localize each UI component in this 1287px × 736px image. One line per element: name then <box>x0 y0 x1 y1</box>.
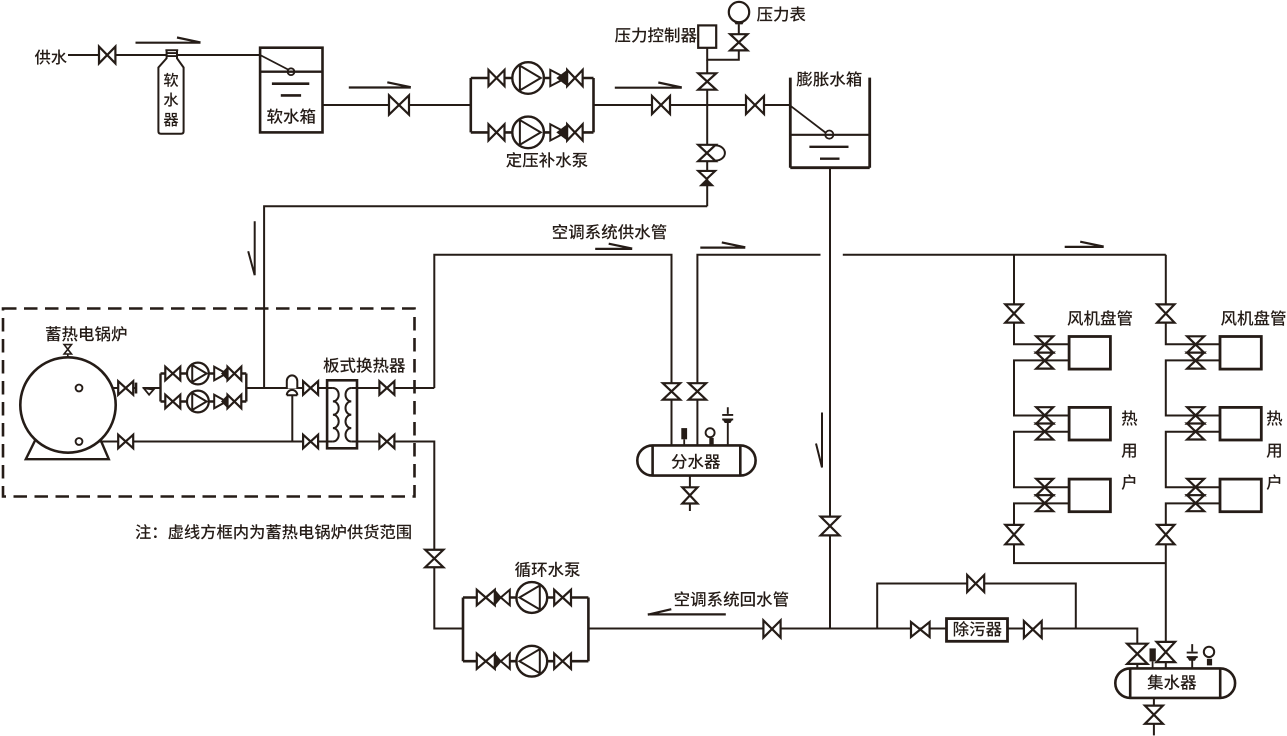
circulation pump branch 2 valve <box>477 654 495 669</box>
label 风机盘管 column 1 <box>1068 310 1133 326</box>
valve on HX hot outlet <box>303 435 318 449</box>
note text 注：虚线方框内为蓄热电锅炉供货范围 <box>136 524 411 539</box>
boiler dashed enclosure box <box>3 309 415 497</box>
valve on HX secondary return <box>379 435 394 449</box>
boiler pump 2 check valve <box>214 395 226 409</box>
wire makeup pump outlet line to expansion tank <box>594 104 791 106</box>
thermometer on collector <box>1150 648 1156 661</box>
valve on fan coil column 2 riser <box>1157 304 1174 322</box>
circulation pump branch 1 valve <box>477 590 495 605</box>
wire plate HX supply riser and AC supply header segment 1 <box>434 255 671 446</box>
flow arrow before pressure junction <box>615 83 682 88</box>
wire circulation pump group rails and branches <box>463 598 588 662</box>
pressure gauge on collector <box>1204 647 1214 657</box>
boiler pump 1 check valve <box>214 367 226 381</box>
fan coil unit 2-2 box <box>1220 407 1261 440</box>
valve on boiler lower return near boiler <box>118 435 133 449</box>
label 供水 city water supply <box>35 50 67 65</box>
wire HX secondary return to circulation pump <box>357 442 463 629</box>
boiler pump branch 1 valve <box>165 367 180 381</box>
flow arrow on supply header 2 <box>700 242 745 247</box>
air vent on collector <box>1187 644 1198 668</box>
air vent on distributor <box>722 407 733 445</box>
boiler pump 1 <box>187 363 209 385</box>
thermal storage electric boiler 蓄热电锅炉 <box>26 440 109 459</box>
makeup pump 1 <box>512 62 544 94</box>
fan coil unit 2-1 box <box>1220 337 1261 370</box>
label 空调系统供水管 <box>553 224 666 239</box>
wire boiler pump group rails and branches <box>161 374 247 402</box>
valve on return line after pumps <box>763 620 780 637</box>
flow arrow on supply header far right <box>1065 242 1104 247</box>
valve on dirt separator bypass <box>967 575 984 592</box>
wire relief device stem between boiler lines <box>291 395 293 441</box>
valve below fan coil column 1 <box>1005 525 1022 544</box>
makeup pump 2 <box>512 117 544 149</box>
Y strainer on boiler outlet <box>144 388 154 394</box>
fan coil unit 2-3 double valve <box>1187 479 1204 495</box>
circulation pump 2 check valve <box>501 654 510 669</box>
thermometer on distributor <box>681 428 687 439</box>
pressure controller 压力控制器 box <box>698 25 716 47</box>
fan coil unit 1-3 box <box>1069 479 1110 512</box>
valve after soft water tank <box>389 95 409 114</box>
valve on expansion pipe <box>821 517 840 536</box>
label 循环水泵 <box>515 562 580 578</box>
wire fan coil 1 return to fan coil 2 supply <box>1014 360 1069 415</box>
dirt separator 除污器 <box>947 619 1008 642</box>
pressure reducing valve with pilot <box>698 145 715 161</box>
wire HX secondary supply to riser <box>357 387 434 389</box>
distributor drain valve <box>682 487 697 503</box>
wire AC return line from pumps to collector <box>588 629 1137 669</box>
collector 集水器 vessel <box>1115 668 1235 698</box>
valve on vertical makeup stem <box>698 73 716 89</box>
boiler pump 2 outlet valve <box>228 395 242 409</box>
wire boiler pump outlet to plate HX hot inlet <box>246 387 327 389</box>
circulation pump 2 <box>516 646 547 677</box>
fan coil unit 1-2 box <box>1069 407 1110 440</box>
wire fan coil 2 return to fan coil 3 supply <box>1014 432 1069 488</box>
valve on HX secondary supply <box>379 381 394 395</box>
wire expansion tank outlet down to return line <box>829 168 831 629</box>
relief device dome on HX hot inlet <box>287 375 298 388</box>
valve on distributor riser 2 <box>689 383 706 399</box>
makeup pump 2 check valve <box>550 124 566 140</box>
wire boiler upper outlet to pump rails <box>81 387 161 389</box>
wire vertical makeup line at x=707 <box>706 60 708 207</box>
boiler pump 1 outlet valve <box>228 367 242 381</box>
circulation pump 1 <box>516 582 547 613</box>
wire makeup water down to boiler circuit <box>264 206 707 388</box>
fan coil unit 2-1 double valve <box>1187 336 1204 352</box>
label 定压补水泵 <box>506 152 587 167</box>
valve after dirt separator <box>1024 621 1042 638</box>
soft water tank 软水箱 <box>260 48 322 133</box>
circulation pump 2 outlet valve <box>554 654 571 669</box>
water softener 软水器 bottle <box>158 50 183 134</box>
valve on makeup line <box>652 96 670 114</box>
boiler top safety valve <box>67 354 69 358</box>
valve on supply inlet <box>99 47 115 64</box>
valve on HX downcomer <box>425 550 443 568</box>
plate heat exchanger 板式换热器 <box>327 380 357 448</box>
wire fan coil column riser and first branch <box>1014 255 1069 344</box>
wire soft water tank outlet to makeup pump rails <box>322 104 471 106</box>
valve below fan coil column 2 <box>1157 525 1174 544</box>
valve before dirt separator <box>911 622 930 637</box>
flow arrow on supply header 1 <box>595 244 632 249</box>
wire supply inlet from 供水 to soft water tank <box>68 54 260 56</box>
label 热用户 column 2 <box>1267 410 1283 490</box>
wire makeup pump group rails and branches <box>471 78 594 132</box>
fan coil unit 1-1 box <box>1069 337 1110 370</box>
wire boiler lower return line <box>81 441 327 443</box>
makeup pump 1 check valve <box>550 70 566 86</box>
down arrow on expansion pipe <box>816 413 822 468</box>
wire fan coil 1 return to fan coil 2 supply <box>1166 360 1220 415</box>
valve on HX hot inlet <box>303 381 318 395</box>
fan coil unit 2-2 double valve <box>1187 407 1204 423</box>
valve on boiler upper outlet <box>118 381 133 395</box>
fan coil unit 2-3 box <box>1220 479 1261 512</box>
wire fan coil 2 return to fan coil 3 supply <box>1166 432 1220 488</box>
boiler pump branch 2 valve <box>165 395 180 409</box>
makeup pump 2 outlet valve <box>567 124 583 140</box>
pressure gauge 压力表 <box>729 2 749 22</box>
valve on fan coil column 1 riser <box>1005 304 1022 322</box>
circulation pump 1 outlet valve <box>554 590 571 605</box>
boiler upper port <box>76 385 83 392</box>
fan coil unit 1-3 double valve <box>1036 479 1053 495</box>
wire fan coil 3 return down to bottom header <box>1014 503 1166 563</box>
makeup pump branch 1 valve <box>489 70 505 86</box>
valve on collector inlet from fan coils <box>1157 642 1176 662</box>
distributor drain stem <box>689 476 691 488</box>
distributor 分水器 vessel <box>637 445 755 475</box>
flow arrow on supply inlet <box>136 38 201 43</box>
makeup pump branch 2 valve <box>489 124 505 140</box>
fan coil unit 1-1 double valve <box>1036 336 1053 352</box>
fan coil unit 1-2 double valve <box>1036 407 1053 423</box>
label 风机盘管 column 2 <box>1221 310 1286 326</box>
boiler lower port <box>76 438 83 445</box>
expansion tank 膨胀水箱 <box>790 78 869 168</box>
union bar on boiler outlet <box>135 383 138 394</box>
flow arrow on return line <box>648 609 726 615</box>
collector drain stem <box>1153 698 1155 706</box>
valve on distributor riser 1 <box>663 383 680 399</box>
valve under pressure gauge <box>730 34 747 50</box>
makeup pump 1 outlet valve <box>567 70 583 86</box>
down arrow on makeup drop line <box>248 221 255 275</box>
circulation pump 1 check valve <box>501 590 510 605</box>
label 热用户 column 1 <box>1122 410 1138 490</box>
wire fan coil 3 return down to collector <box>1166 503 1220 668</box>
pressure gauge on distributor <box>706 428 715 437</box>
boiler pump 2 <box>187 391 209 413</box>
valve before expansion tank <box>746 96 764 114</box>
collector drain valve <box>1145 706 1163 724</box>
wire fan coil column riser and first branch <box>1166 255 1220 344</box>
label 空调系统回水管 <box>675 591 788 606</box>
vertical check valve on makeup stem <box>698 171 715 179</box>
wire pressure controller stem and gauge stem <box>707 24 739 60</box>
valve on collector inlet from return line <box>1127 644 1147 664</box>
flow arrow after soft water tank <box>349 82 411 87</box>
wire dirt separator bypass loop <box>877 584 1076 629</box>
wire distributor riser 2 and AC supply header segment 2 <box>697 255 1165 446</box>
